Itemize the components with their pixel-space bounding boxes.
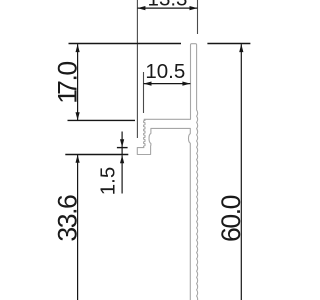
svg-text:17.0: 17.0 — [53, 62, 83, 104]
svg-text:60.0: 60.0 — [216, 195, 246, 242]
svg-text:13.3: 13.3 — [148, 0, 188, 11]
svg-text:10.5: 10.5 — [145, 60, 185, 83]
svg-text:1.5: 1.5 — [97, 167, 120, 196]
svg-text:33.6: 33.6 — [53, 195, 83, 242]
